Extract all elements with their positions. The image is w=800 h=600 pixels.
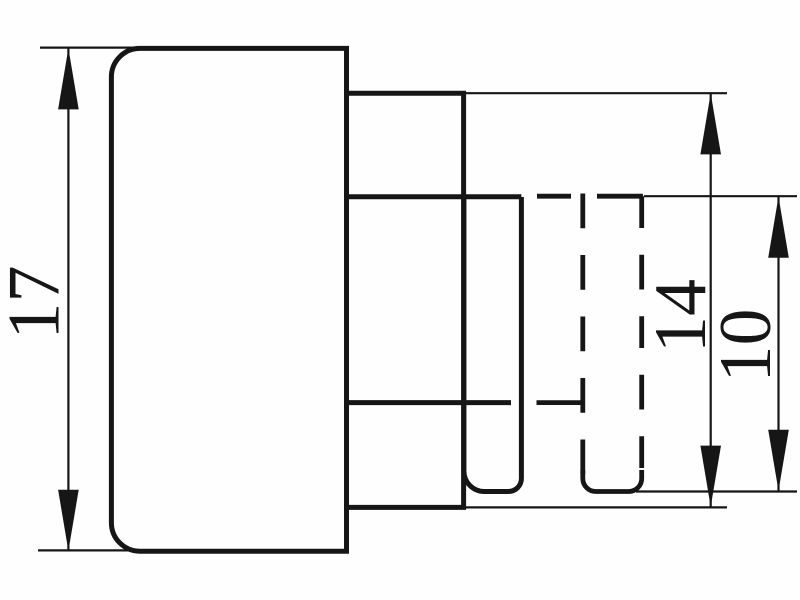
hidden line left vertical <box>580 194 585 477</box>
dimension line 17 <box>67 48 69 551</box>
arrowhead 14 top <box>700 93 721 154</box>
extension line shank bottom <box>636 490 797 492</box>
svg-text:10: 10 <box>705 309 787 383</box>
svg-text:17: 17 <box>0 266 76 340</box>
extension line shank top <box>644 195 797 197</box>
extension line step2 bottom <box>464 506 727 508</box>
extension line step2 top <box>464 92 727 94</box>
extension line top left <box>40 46 141 48</box>
extension line bottom left <box>38 549 138 551</box>
arrowhead 14 bottom <box>700 446 721 507</box>
hidden outline bottom with corners <box>583 470 642 492</box>
arrowhead 17 bottom <box>58 490 79 551</box>
arrowhead 10 top <box>768 197 789 258</box>
third step (shank) outline <box>464 197 522 492</box>
arrowhead 10 bottom <box>768 430 789 491</box>
internal edge line upper <box>347 194 522 199</box>
hidden line top horizontal <box>537 194 643 199</box>
dimension line 10 <box>777 197 779 491</box>
internal edge line lower <box>347 400 512 405</box>
hidden line mid horizontal <box>537 400 583 405</box>
hidden line right vertical <box>639 196 644 476</box>
arrowhead 17 top <box>58 48 79 109</box>
dimension line 14 <box>710 93 712 507</box>
second step outline <box>347 93 464 507</box>
main body outline <box>111 48 346 551</box>
